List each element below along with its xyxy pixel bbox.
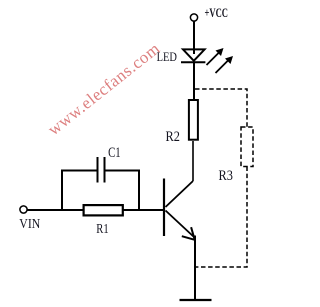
wire left branch vertical	[61, 170, 63, 211]
wire emitter to ground	[194, 236, 196, 301]
dashed wire R3 bottom to emitter	[196, 167, 247, 268]
LED light arrow 1	[207, 48, 224, 65]
svg-text:R3: R3	[219, 168, 233, 184]
transistor Q1 emitter diagonal with arrow	[166, 211, 195, 240]
capacitor C1	[98, 157, 105, 183]
svg-text:VIN: VIN	[19, 217, 40, 232]
wire C1 right to right branch	[105, 170, 141, 172]
wire VCC to LED anode	[193, 21, 195, 54]
resistor R3 dashed	[241, 127, 253, 167]
wire top branch to C1 left	[61, 170, 97, 172]
wire R1 to base	[123, 209, 164, 211]
svg-text:R2: R2	[166, 129, 180, 145]
transistor Q1 collector diagonal	[166, 181, 194, 207]
resistor R2	[189, 100, 198, 140]
resistor R1	[84, 205, 123, 215]
wire R2 to collector	[192, 141, 194, 181]
terminal +VCC	[190, 14, 197, 21]
transistor Q1 base bar	[163, 179, 165, 237]
LED light arrow 2	[216, 56, 234, 73]
svg-text:LED: LED	[157, 49, 177, 64]
terminal VIN	[20, 206, 27, 213]
svg-text:+VCC: +VCC	[205, 6, 229, 20]
svg-text:C1: C1	[108, 145, 121, 161]
LED D1	[181, 49, 205, 62]
dashed wire node A to R3 top	[195, 89, 247, 128]
wire VIN to R1	[27, 209, 84, 211]
wire LED cathode to R2	[193, 62, 195, 100]
ground	[180, 299, 212, 301]
svg-text:www.elecfans.com: www.elecfans.com	[44, 39, 163, 139]
svg-text:R1: R1	[96, 222, 108, 237]
wire right branch vertical	[138, 170, 140, 211]
